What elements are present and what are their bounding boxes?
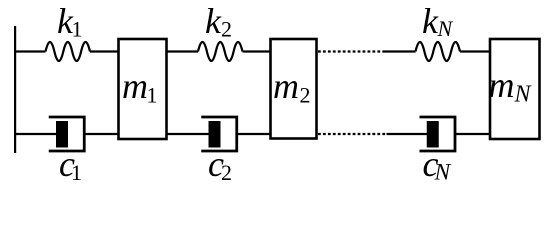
svg-text:2: 2 (221, 17, 232, 42)
mass m2 box (271, 39, 317, 139)
svg-text:N: N (514, 82, 533, 108)
svg-text:N: N (434, 160, 452, 186)
spring kN (416, 42, 460, 61)
svg-text:k: k (422, 1, 439, 41)
spring k1 (46, 42, 91, 61)
wire top solid to spring kN (384, 50, 416, 52)
svg-text:k: k (205, 1, 222, 41)
mass m1 box (119, 39, 167, 139)
damper cN cylinder (420, 117, 456, 151)
wire spring k1 to mass m1 (90, 50, 119, 52)
damper c2 cylinder (201, 117, 237, 151)
wire bottom rail wall to damper c1 (14, 133, 58, 135)
svg-text:m: m (273, 66, 299, 106)
wire bottom dotted mass m2 to cN segment (318, 133, 387, 135)
svg-text:2: 2 (300, 83, 311, 108)
wire bottom solid to damper cN (387, 133, 429, 135)
spring k2 (198, 42, 242, 61)
damper c1 piston (56, 121, 68, 148)
wire damper c2 to mass m2 (237, 133, 272, 135)
svg-text:m: m (489, 65, 515, 105)
svg-text:m: m (122, 66, 148, 106)
svg-text:2: 2 (221, 160, 232, 185)
wire top dotted mass m2 to kN segment (318, 50, 384, 52)
wire top rail wall to spring k1 (14, 50, 46, 52)
svg-text:1: 1 (72, 17, 83, 42)
svg-text:1: 1 (147, 83, 158, 108)
wall (14, 26, 16, 153)
damper c1 cylinder (49, 117, 85, 151)
wire damper cN to mass mN (455, 133, 491, 135)
svg-text:N: N (437, 16, 454, 41)
wire spring kN to mass mN (460, 50, 491, 52)
damper c2 piston (209, 121, 221, 148)
svg-text:1: 1 (71, 160, 82, 185)
damper cN piston (427, 121, 439, 148)
wire bottom rail mass m1 to damper c2 (166, 133, 210, 135)
wire damper c1 to mass m1 (84, 133, 119, 135)
wire spring k2 to mass m2 (243, 50, 272, 52)
mass mN box (490, 39, 540, 139)
wire top rail mass m1 to spring k2 (166, 50, 198, 52)
